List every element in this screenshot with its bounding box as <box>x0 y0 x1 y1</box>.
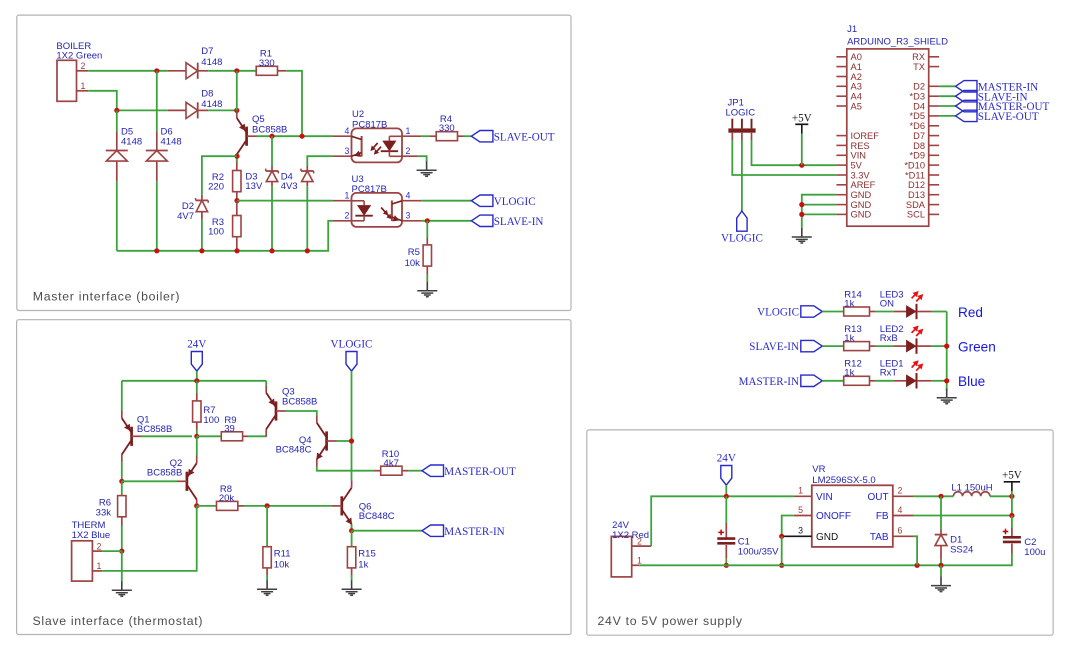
VR pin 1 VIN <box>794 495 812 497</box>
wire VLOGIC to R14 <box>822 311 843 313</box>
wire pin1 to D8 row <box>88 91 168 111</box>
junction 24V/rail <box>194 378 199 383</box>
svg-text:2: 2 <box>406 146 411 156</box>
power flag VLOGIC (slave) <box>346 352 357 372</box>
svg-text:2: 2 <box>345 210 350 220</box>
svg-text:A1: A1 <box>851 62 862 72</box>
svg-text:RxB: RxB <box>880 333 898 344</box>
svg-text:*D3: *D3 <box>909 92 925 102</box>
J1 left pin A4 <box>836 95 846 97</box>
wire U3 pin3 to SLAVE-IN label <box>421 220 471 222</box>
svg-text:GND: GND <box>851 200 872 210</box>
resistor R13 1k <box>844 342 870 351</box>
global label VLOGIC <box>471 195 493 206</box>
svg-text:LM2596SX-5.0: LM2596SX-5.0 <box>812 475 875 486</box>
wire R9 to Q3 collector <box>248 435 266 437</box>
junction R7/Q1-base/R9/Q2-emitter <box>194 434 199 439</box>
svg-text:+5V: +5V <box>792 113 812 125</box>
junction D8/Q5 emitter <box>234 108 239 113</box>
svg-text:1: 1 <box>97 561 102 571</box>
wire 24V flag stem <box>725 485 727 496</box>
svg-text:220: 220 <box>208 182 224 193</box>
svg-text:Blue: Blue <box>958 374 985 389</box>
wire D5 to SLAVE-OUT label <box>939 115 955 117</box>
svg-text:Slave interface (thermostat): Slave interface (thermostat) <box>33 614 204 628</box>
junction L1/+5V/C2 <box>1009 494 1014 499</box>
diode D6 4148 <box>156 131 158 150</box>
J1 left pin IOREF <box>836 135 846 137</box>
resistor R15 1k <box>351 531 353 547</box>
svg-text:1k: 1k <box>844 333 854 344</box>
svg-text:TAB: TAB <box>870 532 889 543</box>
C2 plus sign <box>1003 531 1009 533</box>
wire D3 top from base row <box>271 136 273 166</box>
J1 right pin D7 <box>929 135 939 137</box>
wire Q4 base to VLOGIC <box>336 440 351 442</box>
svg-text:BC858B: BC858B <box>252 125 287 136</box>
svg-text:A5: A5 <box>851 101 862 111</box>
svg-text:BC848C: BC848C <box>276 445 312 456</box>
VR pin 6 TAB <box>893 535 913 537</box>
diode D8 4148 <box>168 109 186 111</box>
wire U2 pin2 to ground <box>417 156 427 162</box>
svg-text:1X2 Blue: 1X2 Blue <box>72 530 111 541</box>
svg-text:BC858B: BC858B <box>147 467 182 478</box>
svg-text:VLOGIC: VLOGIC <box>331 339 373 351</box>
svg-text:24V to 5V power supply: 24V to 5V power supply <box>598 614 743 628</box>
J1 left pin 5V <box>836 164 846 166</box>
wire J1 GND pins to ground <box>802 195 837 229</box>
wire U3 pin4 to VLOGIC label <box>421 200 471 202</box>
svg-text:D7: D7 <box>913 131 925 141</box>
wire SLAVE-IN to R13 <box>822 345 843 347</box>
svg-text:2: 2 <box>898 486 903 496</box>
global label MASTER-OUT <box>422 465 444 476</box>
svg-text:VIN: VIN <box>851 151 867 161</box>
J1 left pin 3.3V <box>836 174 846 176</box>
svg-text:D13: D13 <box>908 190 925 200</box>
svg-text:PC817B: PC817B <box>352 184 387 195</box>
svg-text:4148: 4148 <box>201 99 222 110</box>
wire D4 to MASTER-OUT label <box>939 105 955 107</box>
svg-text:IOREF: IOREF <box>851 131 880 141</box>
junction bus/D4 <box>305 248 310 253</box>
global label MASTER-IN (LED row) <box>801 375 823 386</box>
svg-text:1: 1 <box>406 126 411 136</box>
zener D2 4V7 <box>201 195 203 201</box>
transistor Q3 BC858B (PNP, mirrored) <box>265 381 267 385</box>
svg-text:100u: 100u <box>1024 547 1045 558</box>
VR pin 5 ONOFF <box>794 515 812 517</box>
svg-text:*D6: *D6 <box>909 121 925 131</box>
junction Q4 base/VLOGIC <box>349 438 354 443</box>
svg-text:4148: 4148 <box>121 136 142 147</box>
svg-text:330: 330 <box>439 123 455 134</box>
J1 right pin RX <box>929 56 939 58</box>
global label SLAVE-OUT <box>471 131 493 142</box>
wire Q4 emitter to MASTER-OUT row <box>317 467 375 471</box>
J1 right pin *D3 <box>929 95 939 97</box>
global label SLAVE-OUT (J1) <box>956 110 978 121</box>
resistor R6 33k <box>121 481 123 495</box>
svg-text:10k: 10k <box>405 258 421 269</box>
svg-text:1X2 Green: 1X2 Green <box>56 51 102 62</box>
connector BOILER 1X2 Green <box>57 60 77 101</box>
transistor Q6 BC848C (NPN) <box>351 480 353 488</box>
junction R2/R3/U3 pin1 <box>234 198 239 203</box>
J1 left pin A2 <box>836 76 846 78</box>
frame: slave interface box <box>17 320 571 635</box>
junction rail/LED1 <box>944 378 949 383</box>
svg-text:L1 150uH: L1 150uH <box>951 482 992 493</box>
junction GND/bottom rail <box>779 563 784 568</box>
svg-text:GND: GND <box>851 190 872 200</box>
J1 right pin D2 <box>929 85 939 87</box>
svg-text:2: 2 <box>81 61 86 71</box>
svg-text:D8: D8 <box>913 141 925 151</box>
J1 right pin *D10 <box>929 164 939 166</box>
wire bottom rail <box>639 554 1012 566</box>
global label SLAVE-IN (LED row) <box>801 340 823 351</box>
J1 left pin A5 <box>836 105 846 107</box>
svg-text:4: 4 <box>898 505 903 515</box>
diode D1 SS24 <box>940 496 942 529</box>
wire to MASTER-IN label <box>352 530 422 532</box>
J1 right pin *D11 <box>929 174 939 176</box>
power flag 24V (slave) <box>191 352 202 372</box>
LED LED1 RxT <box>894 380 906 382</box>
VR pin 3 GND <box>782 535 812 537</box>
svg-text:A4: A4 <box>851 92 862 102</box>
svg-text:4V3: 4V3 <box>281 181 298 192</box>
svg-text:24V: 24V <box>187 339 206 351</box>
wire THERM pin1 to Q2 collector net <box>102 506 197 571</box>
frame: master interface box <box>17 15 571 310</box>
J1 right pin SDA <box>929 204 939 206</box>
wire R4 to SLAVE-OUT label <box>464 135 472 137</box>
wire Q1 base to R7 node <box>142 435 193 437</box>
transistor Q4 BC848C (NPN, mirrored) <box>316 415 318 423</box>
svg-text:RxT: RxT <box>880 368 898 379</box>
svg-text:D7: D7 <box>201 46 213 57</box>
svg-text:SLAVE-OUT: SLAVE-OUT <box>978 111 1039 123</box>
resistor R8 20k <box>197 505 217 507</box>
wire junction to ground <box>121 551 123 581</box>
LED LED2 RxB <box>894 345 906 347</box>
svg-text:VIN: VIN <box>816 492 833 503</box>
wire ONOFF to GND net <box>782 516 794 537</box>
junction pin3/R5 <box>425 218 430 223</box>
wire D3 to bus <box>271 182 273 187</box>
junction ONOFF/GND pin <box>779 534 784 539</box>
junction FB/C2 <box>1009 513 1014 518</box>
svg-text:AREF: AREF <box>851 180 876 190</box>
svg-text:13V: 13V <box>245 181 263 192</box>
wire R8 to Q6 base node <box>244 505 332 507</box>
connector J1 ARDUINO_R3_SHIELD <box>847 49 929 226</box>
svg-text:D12: D12 <box>908 180 925 190</box>
wire LED1 to rail <box>932 380 947 382</box>
VR pin 2 OUT <box>893 495 913 497</box>
svg-text:SDA: SDA <box>906 200 926 210</box>
J1 left pin A0 <box>836 56 846 58</box>
regulator VR LM2596SX-5.0 <box>812 485 893 547</box>
svg-text:MASTER-IN: MASTER-IN <box>739 376 799 388</box>
power flag VLOGIC (J1) <box>737 211 747 231</box>
junction R8/Q6-base/R11 <box>265 503 270 508</box>
J1 left pin VIN <box>836 154 846 156</box>
wire VLOGIC vertical <box>351 371 353 480</box>
ground (psu) <box>940 565 942 577</box>
svg-text:R15: R15 <box>358 549 375 560</box>
junction bus/D3 <box>269 248 274 253</box>
svg-text:1X2 Red: 1X2 Red <box>612 530 649 541</box>
svg-text:1: 1 <box>637 556 642 566</box>
svg-text:VLOGIC: VLOGIC <box>721 233 763 245</box>
resistor R11 10k <box>266 506 268 547</box>
transistor Q1 BC858B (PNP) <box>121 381 123 411</box>
ground (R15) <box>351 575 353 581</box>
svg-text:RES: RES <box>851 141 870 151</box>
junction Q2-coll/R8/therm net <box>194 503 199 508</box>
svg-text:20k: 20k <box>219 493 235 504</box>
resistor R5 10k <box>426 221 428 238</box>
svg-text:D2: D2 <box>913 82 925 92</box>
junction base/D3 <box>269 134 274 139</box>
wire U2 pin1 to R4 <box>421 135 430 137</box>
wire R14 to LED3 <box>875 311 894 313</box>
junction D1/bottom rail/gnd <box>938 563 943 568</box>
J1 left pin A1 <box>836 66 846 68</box>
resistor R4 330 <box>430 135 436 137</box>
svg-text:5V: 5V <box>851 160 863 170</box>
wire LED2 to rail <box>932 345 947 347</box>
wire R1 to U2 pin4 net <box>286 71 302 136</box>
svg-text:BC858B: BC858B <box>282 396 317 407</box>
svg-text:D4: D4 <box>913 101 925 111</box>
J1 left pin RES <box>836 144 846 146</box>
svg-text:Green: Green <box>958 339 996 354</box>
J1 left pin GND <box>836 194 846 196</box>
wire JP1 pin3 to 5V <box>752 140 837 165</box>
svg-text:1k: 1k <box>844 368 854 379</box>
svg-text:BC848C: BC848C <box>359 511 395 522</box>
svg-text:*D10: *D10 <box>904 160 925 170</box>
svg-text:FB: FB <box>876 511 889 522</box>
svg-text:GND: GND <box>851 210 872 220</box>
global label SLAVE-IN (J1) <box>956 91 978 102</box>
wire 24V to rail <box>196 371 198 381</box>
wire pin2 up to input rail <box>651 496 794 546</box>
junction bus/D2 <box>199 248 204 253</box>
junction base/R1 net <box>299 134 304 139</box>
svg-text:LOGIC: LOGIC <box>726 107 756 118</box>
svg-text:4148: 4148 <box>161 136 182 147</box>
ground (LED rail) <box>946 389 948 390</box>
wire collector node left to D2 <box>202 156 237 195</box>
LED LED3 ON <box>894 311 906 313</box>
connector THERM 1X2 Blue <box>72 541 93 581</box>
svg-text:1: 1 <box>798 486 803 496</box>
wire Q2 collector down <box>196 506 198 507</box>
zener D3 13V <box>271 166 273 171</box>
svg-text:6: 6 <box>898 526 903 536</box>
J1 right pin D12 <box>929 184 939 186</box>
junction bus/D6 <box>154 248 159 253</box>
wire MASTER-IN to R12 <box>822 380 843 382</box>
connector 24V 1X2 Red <box>611 536 631 577</box>
resistor R10 4k7 <box>375 470 381 472</box>
VR pin 4 FB <box>893 515 913 517</box>
svg-text:ONOFF: ONOFF <box>816 511 851 522</box>
wire D2 to MASTER-IN label <box>939 85 955 87</box>
wire top rail <box>122 380 266 382</box>
svg-text:1: 1 <box>345 190 350 200</box>
svg-text:+5V: +5V <box>1002 470 1022 482</box>
global label MASTER-IN <box>422 525 444 536</box>
svg-text:GND: GND <box>816 532 838 543</box>
junction OUT/D1 <box>938 494 943 499</box>
svg-text:1: 1 <box>81 81 86 91</box>
svg-text:*D9: *D9 <box>909 151 925 161</box>
wire Q1 collector down <box>121 462 123 481</box>
junction pin1/D5 corner <box>114 108 119 113</box>
svg-text:4: 4 <box>406 190 411 200</box>
wire Q2 base from junction <box>122 480 177 482</box>
ground (J1) <box>801 227 803 229</box>
svg-text:SLAVE-IN: SLAVE-IN <box>749 341 799 353</box>
global label SLAVE-IN <box>471 215 493 226</box>
wire pin1 node down to D5 <box>116 110 118 131</box>
svg-text:A0: A0 <box>851 52 862 62</box>
svg-text:MASTER-OUT: MASTER-OUT <box>444 466 516 478</box>
C1 plus sign <box>718 531 724 533</box>
wire junction to U3 pin 1 <box>237 200 333 202</box>
transistor Q5 BC858B (PNP) <box>236 71 238 111</box>
wire D8 to Q5 emitter node <box>208 109 237 111</box>
J1 right pin D4 <box>929 105 939 107</box>
svg-text:PC817B: PC817B <box>352 119 387 130</box>
wire JP1 pin1 to 3.3V <box>732 140 836 175</box>
svg-text:39: 39 <box>224 424 235 435</box>
svg-text:3.3V: 3.3V <box>851 170 871 180</box>
svg-text:D8: D8 <box>201 89 213 100</box>
junction D7/R1/Q5-emitter <box>234 68 239 73</box>
junction Q6-emitter/R15/MASTER-IN <box>349 528 354 533</box>
svg-text:33k: 33k <box>96 508 112 519</box>
wire JP1 pin2 to VLOGIC flag <box>741 140 743 211</box>
svg-text:SS24: SS24 <box>950 545 973 556</box>
wire THERM pin2 to junction <box>102 550 122 552</box>
wire D2 to bus <box>201 219 203 251</box>
svg-text:100: 100 <box>208 227 224 238</box>
wire pin2 node down to D6 <box>156 71 158 132</box>
svg-text:100u/35V: 100u/35V <box>738 546 779 557</box>
svg-text:330: 330 <box>259 58 275 69</box>
wire FB to output node <box>913 515 1012 517</box>
svg-text:BC858B: BC858B <box>137 424 172 435</box>
junction +5V/5V wire <box>799 163 804 168</box>
svg-text:3: 3 <box>406 210 411 220</box>
junction Q5 collector node <box>234 154 239 159</box>
svg-text:MASTER-IN: MASTER-IN <box>444 526 504 538</box>
svg-text:ARDUINO_R3_SHIELD: ARDUINO_R3_SHIELD <box>847 37 948 48</box>
svg-text:J1: J1 <box>847 24 857 35</box>
svg-text:5: 5 <box>798 505 803 515</box>
junction Q1-coll/Q2-base/R6 <box>119 479 124 484</box>
svg-text:SLAVE-OUT: SLAVE-OUT <box>494 131 555 143</box>
junction R6/THERM pin2/gnd <box>119 549 124 554</box>
power symbol +5V (psu) <box>1004 481 1020 483</box>
junction C1/bottom rail <box>724 563 729 568</box>
wire Q5 base row to U2 pin 4 <box>257 135 333 137</box>
wire D5 to bottom bus <box>116 181 118 251</box>
svg-text:R11: R11 <box>274 549 291 560</box>
wire R6 to THERM pin2 node <box>121 526 123 551</box>
svg-text:*D5: *D5 <box>909 111 925 121</box>
J1 right pin *D9 <box>929 154 939 156</box>
svg-text:10k: 10k <box>274 560 290 571</box>
global label VLOGIC (LED row) <box>801 306 823 317</box>
zener D4 4V3 <box>306 166 308 171</box>
optocoupler U3 PC817B <box>333 200 352 202</box>
svg-text:A3: A3 <box>851 82 862 92</box>
wire +5V node down to FB node <box>1011 496 1013 515</box>
optocoupler U2 PC817B <box>333 135 352 137</box>
junction GND3 <box>799 212 804 217</box>
svg-text:3: 3 <box>798 526 803 536</box>
resistor R12 1k <box>844 376 870 385</box>
resistor R7 100 <box>196 381 198 393</box>
svg-text:ON: ON <box>880 298 894 309</box>
J1 right pin D13 <box>929 194 939 196</box>
svg-text:R5: R5 <box>408 247 420 258</box>
wire TAB to bottom rail <box>913 536 917 565</box>
wire L1 to +5V node <box>990 495 1012 497</box>
svg-text:4148: 4148 <box>201 57 222 68</box>
ground (R11) <box>266 575 268 581</box>
svg-text:4V7: 4V7 <box>177 211 194 222</box>
svg-text:24V: 24V <box>717 453 736 465</box>
svg-text:Q5: Q5 <box>252 114 265 125</box>
junction bus/R3 <box>234 248 239 253</box>
svg-text:VLOGIC: VLOGIC <box>494 196 536 208</box>
ground (U2 pin2) <box>426 161 428 163</box>
junction GND2 <box>799 202 804 207</box>
resistor R3 100 <box>236 201 238 216</box>
wire D3 to SLAVE-IN label <box>939 95 955 97</box>
transistor Q2 BC858B (PNP, mirrored) <box>196 436 198 455</box>
inductor L1 150uH <box>953 492 989 497</box>
wire Q3 base to Q4 collector <box>286 411 317 415</box>
J1 left pin A3 <box>836 85 846 87</box>
J1 left pin GND <box>836 204 846 206</box>
junction rail/LED2 <box>944 344 949 349</box>
J1 left pin AREF <box>836 184 846 186</box>
ground (THERM) <box>121 580 123 583</box>
diode D5 4148 <box>116 131 118 150</box>
svg-text:RX: RX <box>912 52 925 62</box>
global label MASTER-OUT (J1) <box>956 100 978 112</box>
svg-text:2: 2 <box>97 541 102 551</box>
junction 24V/input rail <box>724 494 729 499</box>
J1 left pin GND <box>836 213 846 215</box>
svg-text:OUT: OUT <box>867 492 888 503</box>
wire D7 to R1 <box>208 70 256 72</box>
J1 right pin D8 <box>929 144 939 146</box>
J1 right pin TX <box>929 66 939 68</box>
wire LED3 to rail <box>932 311 947 313</box>
